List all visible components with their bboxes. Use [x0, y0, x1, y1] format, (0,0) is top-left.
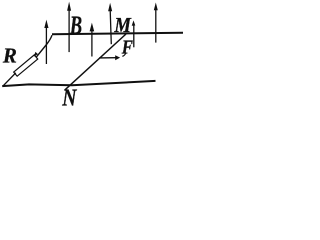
wire: left edge upper segment (resistor to top rail, with corner curve) — [36, 35, 52, 57]
svg-text:N: N — [61, 84, 77, 107]
wire: bottom rail — [2, 81, 155, 86]
field arrow 3 — [90, 23, 95, 57]
field arrow 6 (tall, right) — [154, 3, 158, 43]
field arrow 4 (tall, left of M) — [108, 3, 112, 45]
field arrow 1 — [44, 20, 48, 64]
svg-text:F: F — [121, 37, 134, 59]
wire: left edge lower segment (corner to resistor) — [3, 73, 16, 86]
resistor R (slanted box) — [14, 55, 38, 76]
field arrow 2 (tall, near B) — [67, 2, 71, 53]
serif foot of F — [122, 53, 125, 56]
rod MN — [65, 34, 126, 90]
field arrow 5 (right of M) — [132, 20, 136, 47]
svg-text:M: M — [113, 15, 131, 37]
wire: top rail — [52, 33, 183, 35]
svg-text:R: R — [2, 44, 17, 68]
svg-text:B: B — [69, 11, 82, 40]
force arrow F (horizontal, from rod) — [99, 55, 120, 60]
current arrowhead on left-edge wire — [34, 52, 38, 57]
